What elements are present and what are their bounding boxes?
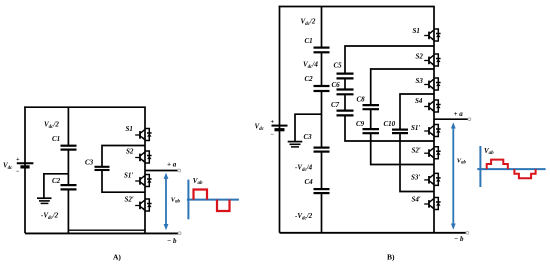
capacitor C6 (circuit B) — [337, 90, 354, 95]
capacitor C5 (circuit B) — [337, 74, 354, 79]
svg-text:Vdc: Vdc — [3, 162, 13, 172]
terminal circle +a (B) — [468, 118, 471, 121]
capacitor C1 (circuit A) — [61, 146, 77, 150]
svg-text:+ a: + a — [167, 161, 177, 169]
svg-text:C10: C10 — [384, 120, 396, 128]
wire: A flying-cap branch top (node between S1 and S2) — [102, 146, 145, 167]
capacitor C10 (circuit B) — [392, 130, 408, 134]
transistor S4' (circuit B) — [424, 198, 440, 210]
wire: B dc-link chain seg1 — [321, 7, 323, 48]
wire: A left rail — [24, 106, 26, 233]
svg-text:S2: S2 — [126, 148, 134, 156]
svg-text:Vab: Vab — [171, 196, 181, 204]
svg-text:S3: S3 — [416, 77, 424, 85]
svg-text:A): A) — [113, 253, 121, 262]
battery Vdc (circuit B) — [272, 126, 288, 130]
svg-text:B): B) — [387, 253, 395, 262]
svg-text:Vab: Vab — [193, 177, 203, 186]
svg-text:Vab: Vab — [484, 147, 494, 156]
svg-text:+: + — [16, 156, 20, 163]
svg-text:C5: C5 — [334, 61, 343, 69]
waveform axes (circuit A, blue) — [187, 180, 239, 220]
wire: A switch-leg rail — [144, 107, 146, 233]
svg-text:C9: C9 — [356, 120, 365, 128]
capacitor C3 (circuit B) — [314, 148, 330, 152]
svg-text:Vab: Vab — [457, 158, 467, 166]
ground (circuit A) — [37, 198, 52, 203]
capacitor C3 (circuit A) — [95, 167, 110, 170]
svg-text:C3: C3 — [85, 159, 94, 167]
svg-text:Vdc: Vdc — [255, 123, 265, 133]
svg-text:-Vdc/2: -Vdc/2 — [295, 212, 313, 222]
svg-text:S4: S4 — [415, 97, 423, 105]
transistor S1 (circuit A) — [135, 129, 151, 141]
wire: B dc-link chain seg3 — [321, 92, 323, 147]
svg-text:+ a: + a — [454, 110, 464, 118]
wire: A bottom rail doubled segment — [68, 229, 145, 231]
svg-text:S1′: S1′ — [411, 124, 420, 132]
svg-text:Vdc/2: Vdc/2 — [301, 18, 316, 28]
transistor S3' (circuit B) — [424, 173, 440, 185]
transistor S2' (circuit B) — [424, 147, 440, 159]
arrow Vab (circuit A, blue double arrow) — [164, 173, 169, 231]
wire: column2 C8-C9 — [370, 110, 372, 129]
transistor S1' (circuit B) — [424, 125, 440, 137]
svg-text:S1: S1 — [413, 27, 420, 35]
svg-text:S1: S1 — [126, 125, 133, 133]
svg-text:C1: C1 — [305, 37, 313, 45]
wire: B ground link — [295, 114, 322, 141]
capacitor C7 (circuit B) — [337, 111, 354, 116]
ground (circuit B) — [288, 142, 303, 147]
capacitor C1 (circuit B) — [314, 48, 330, 53]
wire: column3 bottom to node n7 (S3'-S4') — [400, 134, 434, 192]
wire: B bottom rail — [280, 232, 467, 234]
svg-text:S1′: S1′ — [124, 172, 133, 180]
wire: A ground link — [44, 174, 69, 198]
terminal circle -b (A) — [178, 232, 181, 235]
waveform axes (circuit B, blue) — [477, 146, 545, 187]
transistor S2' (circuit A) — [135, 199, 151, 211]
wire: B left rail — [279, 6, 281, 233]
wire: node n3 (S3-S4) to flying column 3 — [400, 94, 434, 129]
wire: column2 bottom to node n6 (S2'-S3') — [371, 134, 434, 165]
svg-text:− b: − b — [167, 237, 177, 245]
transistor S1 (circuit B) — [424, 29, 440, 41]
svg-text:− b: − b — [454, 235, 464, 243]
svg-text:C1: C1 — [52, 135, 60, 143]
wire: A output +a — [145, 170, 178, 172]
svg-text:Vdc/2: Vdc/2 — [44, 121, 59, 131]
capacitor C2 (circuit A) — [61, 185, 77, 189]
terminal circle +a (A) — [178, 169, 181, 172]
svg-text:-Vdc/2: -Vdc/2 — [41, 212, 59, 222]
svg-text:Vdc/4: Vdc/4 — [303, 61, 318, 71]
svg-text:-Vdc/4: -Vdc/4 — [295, 163, 313, 173]
svg-text:+: + — [271, 119, 275, 126]
transistor S3 (circuit B) — [424, 78, 440, 90]
transistor S4 (circuit B) — [424, 100, 440, 112]
capacitor C9 (circuit B) — [363, 129, 380, 133]
svg-text:S2: S2 — [416, 52, 424, 60]
wire: A top rail — [24, 106, 146, 108]
arrow Vab (circuit B, blue double arrow) — [451, 122, 456, 230]
transistor S1' (circuit A) — [135, 175, 151, 187]
capacitor C2 (circuit B) — [314, 86, 330, 91]
waveform trace Vab (circuit B, red staircase) — [487, 160, 536, 179]
wire: A mid chain upper — [67, 107, 69, 145]
svg-text:C8: C8 — [357, 96, 366, 104]
svg-text:S4′: S4′ — [412, 196, 421, 204]
svg-text:−: − — [271, 132, 275, 138]
transistor S2 (circuit B) — [424, 54, 440, 66]
wire: B dc-link chain seg5 — [321, 194, 323, 233]
battery Vdc (circuit A) — [17, 163, 34, 167]
wire: node n2 (S2-S3) to flying column 2 — [371, 69, 434, 105]
wire: B output +a — [434, 118, 468, 120]
svg-text:C2: C2 — [305, 75, 314, 83]
waveform trace Vab (circuit A, red square wave) — [194, 190, 230, 212]
wire: node n1 (S1-S2) to flying column 1 — [345, 46, 434, 73]
wire: A mid chain middle — [67, 150, 69, 184]
svg-text:S2′: S2′ — [125, 195, 134, 203]
wire: A bottom rail — [25, 232, 179, 234]
wire: B dc-link chain seg2 — [321, 53, 323, 85]
wire: A flying-cap branch bottom (node between S1' and S2') — [102, 171, 145, 192]
wire: B top rail — [279, 6, 435, 8]
svg-text:−: − — [16, 169, 20, 175]
transistor S2 (circuit A) — [135, 151, 151, 163]
svg-text:C3: C3 — [304, 133, 313, 141]
wire: column1 bottom to node n5 (S1'-S2') — [345, 116, 434, 141]
wire: column1 C5-C6 — [344, 79, 346, 89]
svg-text:C6: C6 — [332, 81, 341, 89]
wire: B switch-leg rail — [433, 7, 435, 233]
svg-text:C4: C4 — [305, 178, 314, 186]
capacitor C4 (circuit B) — [314, 189, 330, 193]
svg-text:C2: C2 — [52, 177, 61, 185]
svg-text:C7: C7 — [331, 101, 340, 109]
svg-text:S2′: S2′ — [412, 146, 421, 154]
wire: A mid chain lower — [67, 190, 69, 233]
svg-text:S3′: S3′ — [411, 173, 420, 181]
capacitor C8 (circuit B) — [363, 105, 380, 109]
wire: B dc-link chain seg4 — [321, 152, 323, 188]
terminal circle -b (B) — [466, 231, 469, 234]
wire: column1 C6-C7 — [344, 95, 346, 110]
